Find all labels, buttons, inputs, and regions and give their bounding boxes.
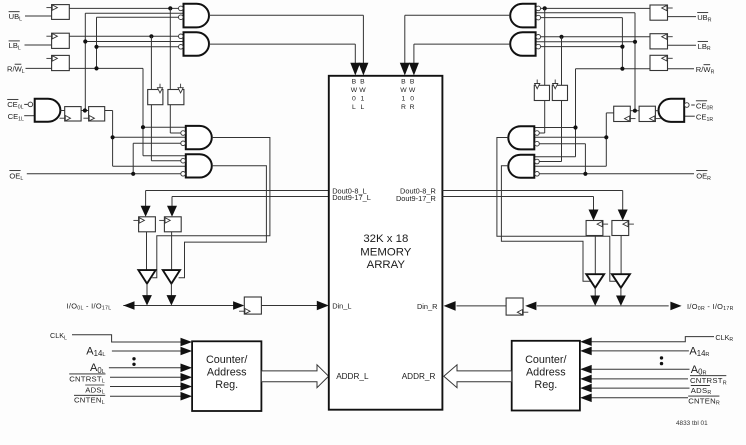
svg-text:Address: Address xyxy=(207,366,247,378)
wire: G1 output to BW1L port of memory array xyxy=(209,15,363,64)
AND gate G10 chip-enable combine right xyxy=(659,99,690,122)
label CE1R xyxy=(696,113,713,123)
wire: R/W_L vertical to write gates G3 G4 plain inputs xyxy=(143,68,186,155)
svg-text:1: 1 xyxy=(361,96,365,103)
wire: G4 output enable route to output driver T2 xyxy=(179,166,267,278)
wire: ADS_L line xyxy=(110,386,181,388)
wire: G8 output enable route to driver T4 xyxy=(497,138,617,282)
label CNTRST_R xyxy=(690,376,727,387)
label UB_R xyxy=(697,13,712,24)
tri-state output driver T1 xyxy=(138,270,155,284)
svg-text:ADDR_L: ADDR_L xyxy=(336,372,369,381)
label ADS_L xyxy=(85,385,105,396)
arrow into output register D1 xyxy=(141,206,151,217)
label CNTEN_L xyxy=(74,395,105,406)
wire: G6 output to BW1R port of memory array xyxy=(405,15,510,64)
arrow into output register D5 xyxy=(589,210,599,221)
svg-text:0: 0 xyxy=(352,96,356,103)
label memory array title xyxy=(360,233,411,271)
latch U5 chip-enable register B xyxy=(83,107,104,121)
wire: Din_R register to memory array xyxy=(457,305,507,307)
wire: CE0R stub to gate G10 bubble xyxy=(691,104,695,106)
svg-text:B: B xyxy=(360,78,365,85)
label A14L xyxy=(86,345,105,358)
wire: OE_R line to gates G8 G9 bubble inputs xyxy=(539,144,694,174)
svg-text:W: W xyxy=(400,87,407,94)
svg-text:B: B xyxy=(401,78,406,85)
register R3 byte-write pipeline box (right inner) xyxy=(534,80,549,101)
arrow ADS_R into counter xyxy=(580,384,592,393)
wire: I/O_R bus line xyxy=(537,305,669,307)
wire: CE enable net V1R to gates G6 G7 plain inputs xyxy=(536,13,635,111)
junction: V2 on R/W_L line xyxy=(94,66,98,70)
arrow T1 to I/O line xyxy=(142,295,152,305)
arrow into memory Din_L port xyxy=(317,301,329,311)
svg-text:CNTRSTL: CNTRSTL xyxy=(69,374,105,384)
wire: CNTRST_R line xyxy=(591,378,688,380)
wire: G3 output enable route to output driver T1 xyxy=(152,138,270,278)
latch U3 R/W_L input register xyxy=(46,55,69,70)
wire: CE latch A output to latch B xyxy=(81,110,89,112)
pin label BW1L column xyxy=(359,78,366,111)
arrow CNTRST_L into counter xyxy=(181,373,193,382)
wire: D4 to driver T3 xyxy=(594,236,596,275)
arrow into output register D4 xyxy=(618,210,628,221)
junction: LB_R branch node xyxy=(559,35,563,39)
label Counter/Address Reg. right xyxy=(525,354,566,391)
latch U10 chip-enable register B right xyxy=(614,106,636,121)
label LB_L (active-low lower byte enable, left port) xyxy=(9,41,21,52)
wire: CE latch output down to gates G8 G9 xyxy=(534,113,613,166)
svg-text:Counter/: Counter/ xyxy=(525,354,566,366)
wire: T2 output to I/O bus xyxy=(170,284,172,297)
svg-text:Din_L: Din_L xyxy=(332,302,351,311)
wire: D2 to driver T2 xyxy=(171,232,173,270)
wire: CE1L line to gate G5 xyxy=(24,115,35,117)
arrow into BW1R xyxy=(400,63,410,76)
junction: V1R branch to gate G7 xyxy=(633,40,637,44)
svg-text:B: B xyxy=(410,78,415,85)
wire: LB_R latch output to gate G7 xyxy=(541,36,651,38)
wire: T4 output to I/O bus xyxy=(620,288,622,297)
register R1 byte-write pipeline box (left outer) xyxy=(148,84,163,105)
arrow T3 to I/O line xyxy=(590,296,600,306)
pin label Dout0-8_R xyxy=(400,186,436,195)
latch D6 input data register Din_R xyxy=(506,298,528,315)
pin label BW0R column xyxy=(409,78,416,111)
svg-text:W: W xyxy=(409,87,416,94)
tri-state output driver T4 xyxy=(612,274,630,288)
junction: CE right pipeline branch to gate G8 xyxy=(604,135,608,139)
wire: CE enable net V1 to gates G1 G2 plain inputs xyxy=(85,13,183,110)
wire: G5 output to CE latch A xyxy=(60,110,64,112)
pin label Dout9-17_L xyxy=(332,193,371,202)
label CE0R xyxy=(696,101,713,112)
wire: D5 to driver T4 xyxy=(620,236,622,275)
wire: Dout0-8_L bus from memory to output register xyxy=(146,191,329,207)
label OE_R xyxy=(696,171,711,182)
wire: LB_L latch output to gate G2 input 1 xyxy=(69,35,178,37)
svg-text:L: L xyxy=(361,104,365,111)
junction: CE right branch up (net V1R) xyxy=(633,109,637,113)
bus arrow ADDR_L from counter to memory xyxy=(261,365,328,388)
label I/O0R - I/O17R xyxy=(687,302,734,312)
svg-text:W: W xyxy=(351,87,358,94)
svg-text:B: B xyxy=(352,78,357,85)
AND gate G3 (read enable byte 0) xyxy=(181,126,212,149)
label I/O0L - I/O17L xyxy=(67,301,112,311)
wire: LB_R branch down through register to gate G9 xyxy=(539,37,561,162)
wire: G9 output enable route to driver T3 xyxy=(501,166,591,281)
footnote 4833 tbl 01 xyxy=(676,420,708,427)
junction: OE_L branch node xyxy=(131,172,135,176)
latch D1 output data register (left byte 0) xyxy=(133,217,155,232)
wire: R/W_R output to write gates G8 G9 xyxy=(534,69,650,157)
wire: CLK_R line with step to counter xyxy=(591,337,714,342)
svg-text:ARRAY: ARRAY xyxy=(367,259,406,271)
svg-text:Counter/: Counter/ xyxy=(206,354,247,366)
svg-text:W: W xyxy=(359,87,366,94)
wire: D1 to driver T1 xyxy=(146,232,148,270)
arrow A14R into counter xyxy=(580,347,592,356)
label UB_L (active-low upper byte enable, left port) xyxy=(9,12,23,23)
junction: V2 branch to gate G2 xyxy=(94,45,98,49)
ellipsis dots between right address lines xyxy=(660,356,663,365)
wire: A14L address line xyxy=(112,350,181,352)
svg-text:Dout9-17_R: Dout9-17_R xyxy=(396,194,436,203)
block: Counter/Address Reg. right xyxy=(512,341,580,411)
label CNTRST_L xyxy=(69,374,105,385)
svg-text:Reg.: Reg. xyxy=(534,379,557,391)
wire: Dout9-17_R bus from memory to output register xyxy=(442,197,593,210)
wire: ADS_R line xyxy=(591,387,690,389)
wire: Dout0-8_R bus from memory to output register xyxy=(442,191,622,210)
svg-text:CNTENL: CNTENL xyxy=(74,396,105,406)
pin label Dout9-17_R xyxy=(396,194,436,203)
arrow CLK_L into counter xyxy=(181,338,193,347)
pin label Din_R xyxy=(417,302,438,311)
arrow into BW0R xyxy=(409,63,419,76)
bus arrow ADDR_R from counter to memory xyxy=(444,365,512,388)
wire: LB_L branch down through register to gate G4 xyxy=(151,36,180,160)
wire: UB_L input line xyxy=(25,15,52,17)
wire: R/W net V2 to gates G1 G2 bubble inputs xyxy=(97,17,179,68)
latch U4 chip-enable register A xyxy=(60,107,82,121)
latch D5 output data register (right outer) xyxy=(612,221,634,236)
wire: R/W_R input line xyxy=(668,68,695,70)
wire: R/W net V2R to gates G6 G7 bubble inputs xyxy=(541,18,623,69)
latch D4 output data register (right inner) xyxy=(586,221,608,236)
label A0R xyxy=(691,364,707,377)
wire: T1 output to I/O bus xyxy=(146,284,148,297)
wire: CE0L stub to gate G5 bubble xyxy=(24,103,28,105)
register R4 byte-write pipeline box (right outer) xyxy=(552,80,567,101)
pin label BW1R column xyxy=(400,78,407,111)
wire: LB_R input line xyxy=(668,44,697,46)
wire: CNTEN_L line xyxy=(110,395,181,397)
arrow into output register D2 xyxy=(167,206,177,217)
arrow I/O_L pad direction (out) xyxy=(123,301,134,310)
wire: Dout9-17_L bus from memory to output register xyxy=(172,197,329,207)
svg-text:MEMORY: MEMORY xyxy=(360,247,411,259)
latch U6 UB_R input register xyxy=(650,5,673,20)
pin label ADDR_R xyxy=(402,372,436,381)
AND gate G9 (read enable byte 1 right) xyxy=(508,155,539,178)
svg-text:R: R xyxy=(401,104,406,111)
AND gate G5 chip-enable combine xyxy=(28,99,60,122)
svg-text:0: 0 xyxy=(410,96,414,103)
arrow T4 to I/O line xyxy=(616,296,626,306)
wire: CLK_L line with step to counter xyxy=(72,335,181,342)
arrow CNTEN_L into counter xyxy=(181,392,193,401)
label ADS_R xyxy=(691,385,712,396)
junction: UB_R branch node xyxy=(543,6,547,10)
label CE1L (chip enable 1, left) xyxy=(8,112,24,122)
svg-text:Address: Address xyxy=(526,366,566,378)
wire: A0R address line xyxy=(591,368,690,370)
wire: UB_L branch down through register to gate G3 xyxy=(170,8,181,133)
AND gate G6 (UB_R write enable) xyxy=(510,4,540,28)
arrow into Din_L register xyxy=(233,301,244,310)
arrow into BW1L xyxy=(358,63,368,76)
wire: UB_R latch output to gate G6 xyxy=(541,7,651,9)
label A14R xyxy=(689,346,709,359)
block: 32K x 18 MEMORY ARRAY xyxy=(329,76,443,410)
arrow ADS_L into counter xyxy=(181,382,193,391)
junction: UB_L branch node xyxy=(168,6,172,10)
junction: R/W_L to gate G3 input xyxy=(141,125,145,129)
latch D3 input data register Din_L xyxy=(239,297,261,314)
latch U7 LB_R input register xyxy=(650,34,673,49)
op-amp style AND gate G1 (UB write enable) xyxy=(179,4,209,28)
svg-text:L: L xyxy=(352,104,356,111)
junction: V2R branch to gate G7 xyxy=(620,45,624,49)
ellipsis dots between address lines xyxy=(132,357,135,366)
svg-text:Reg.: Reg. xyxy=(215,379,238,391)
svg-text:4833 tbl 01: 4833 tbl 01 xyxy=(676,420,708,427)
label LB_R xyxy=(698,41,711,52)
label CNTEN_R xyxy=(688,396,720,407)
svg-text:32K x 18: 32K x 18 xyxy=(363,233,408,245)
wire: G2 output to BW0L port of memory array xyxy=(209,44,355,64)
pin label Dout0-8_L xyxy=(332,186,367,195)
label A0L xyxy=(90,362,105,375)
tri-state output driver T3 xyxy=(586,274,604,288)
wire: UB_R input line xyxy=(668,16,697,18)
wire: I/O_L bus line xyxy=(123,305,234,307)
arrow CNTEN_R into counter xyxy=(580,394,592,403)
wire: CE right latch chain xyxy=(630,110,639,112)
pin label Din_L xyxy=(332,302,351,311)
wire: CE latch B output down to write gates G3 G4 xyxy=(105,111,186,167)
svg-text:Din_R: Din_R xyxy=(417,302,438,311)
junction: OE_R branch node xyxy=(583,172,587,176)
junction: V1 branch to gate G2 xyxy=(83,39,87,43)
wire: T3 output to I/O bus xyxy=(594,288,596,297)
arrow I/O_R pad direction (out) xyxy=(670,302,681,311)
arrow into BW0L xyxy=(350,63,360,76)
arrow A14L into counter xyxy=(181,347,193,356)
wire: G7 output to BW0R port of memory array xyxy=(414,44,510,64)
arrow T2 to I/O line xyxy=(167,295,177,305)
wire: CNTEN_R line xyxy=(591,397,688,399)
svg-text:ADDR_R: ADDR_R xyxy=(402,372,436,381)
wire: Din_L register to memory array xyxy=(261,305,317,307)
wire: R/W_L input line through latch to write gates xyxy=(26,67,144,69)
latch U8 R/W_R input register xyxy=(650,55,673,70)
latch U9 chip-enable register A right xyxy=(639,106,661,121)
junction: CE pipeline branch to gate G3 xyxy=(111,135,115,139)
junction: V2R on R/W_R line xyxy=(620,67,624,71)
wire: A0L address line xyxy=(109,367,181,369)
wire: OE_L line to gates G3 G4 bubble inputs xyxy=(27,143,181,174)
arrow A0R into counter xyxy=(580,365,592,374)
pin label BW0L column xyxy=(351,78,358,111)
junction: LB_L branch node xyxy=(149,34,153,38)
arrow CNTRST_R into counter xyxy=(580,375,592,384)
svg-text:Dout9-17_L: Dout9-17_L xyxy=(332,193,371,202)
AND gate G8 (read enable byte 0 right) xyxy=(508,126,539,149)
svg-text:1: 1 xyxy=(402,96,406,103)
label R/W_R xyxy=(696,65,715,76)
wire: A14R address line xyxy=(591,350,689,352)
arrow A0L into counter xyxy=(181,364,193,373)
arrow into memory Din_R port xyxy=(444,301,456,311)
latch U2 LB_L input register xyxy=(46,33,69,48)
wire: G10 output to CE latch xyxy=(655,110,658,112)
svg-text:R: R xyxy=(410,104,415,111)
arrow CLK_R into counter xyxy=(580,337,592,346)
label CLK_L xyxy=(50,331,67,341)
label OE_L (active-low output enable, left) xyxy=(9,171,23,182)
wire: UB_R branch down through register to gate G8 xyxy=(539,8,545,133)
AND gate G2 (LB write enable) xyxy=(179,32,209,56)
AND gate G4 (read enable byte 1) xyxy=(181,154,212,177)
label Counter/Address Reg. left xyxy=(206,354,247,391)
wire: UB_L latch output to gate G1 input 1 xyxy=(69,7,178,9)
block: Counter/Address Reg. left xyxy=(192,341,261,411)
latch U1 UB_L input register xyxy=(46,5,69,20)
label CLK_R xyxy=(715,333,733,343)
wire: CNTRST_L line xyxy=(110,376,181,378)
latch D2 output data register (left byte 1) xyxy=(159,217,181,232)
svg-text:CNTENR: CNTENR xyxy=(688,396,720,406)
label CE0L (active-low chip enable 0, left) xyxy=(7,99,23,110)
arrow into Din_R register xyxy=(525,302,536,311)
junction: CE enable branch up (net V1) xyxy=(83,108,87,112)
tri-state output driver T2 xyxy=(163,270,180,284)
label R/W_L (read/write select, left port) xyxy=(7,64,25,75)
wire: LB_L input line xyxy=(25,44,52,46)
register R2 byte-write pipeline box (left inner) xyxy=(168,84,184,105)
wire: CE1R line to gate G10 xyxy=(684,115,695,117)
pin label ADDR_L xyxy=(336,372,369,381)
AND gate G7 (LB_R write enable) xyxy=(510,32,540,56)
junction: R/W_R to gate G8 input xyxy=(573,125,577,129)
